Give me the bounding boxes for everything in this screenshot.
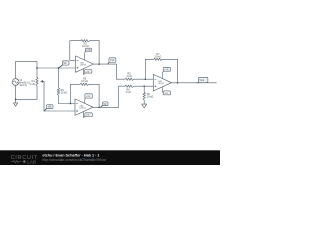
ground (R8) [142,104,147,108]
resistor R2 [70,40,99,49]
svg-text:+VS: +VS [86,50,91,52]
svg-text:VA: VA [63,62,66,65]
svg-text:LAB: LAB [27,160,36,165]
node OA2 -in junction [70,103,72,105]
footer title text [42,154,99,158]
wire source loop left/top [16,61,37,99]
svg-text:V1o: V1o [110,59,115,62]
flag OA1 output [108,58,116,64]
node OA3 out junction [177,82,179,84]
ground (source) [14,99,18,106]
svg-text:LM741: LM741 [80,108,87,110]
node junction at source bottom [15,99,17,101]
svg-text:10 kΩ: 10 kΩ [61,91,68,95]
wire OA3 output [172,82,217,84]
voltage source V1 [12,79,19,86]
resistor R8 [143,86,153,104]
svg-text:-VS: -VS [86,115,90,117]
op-amp OA1 [76,56,94,72]
svg-text:http://circuitlab.com/circuit/: http://circuitlab.com/circuit/29ahd6b799… [42,158,106,162]
wire OA1 output [94,64,117,79]
svg-text:LM741: LM741 [158,83,165,85]
svg-text:10 kΩ: 10 kΩ [147,95,154,99]
flag OA2 +input [44,105,53,111]
svg-text:10 kΩ: 10 kΩ [81,79,88,83]
node A junction [36,67,38,69]
node R7 tap junction [144,78,146,80]
node B junction [58,67,60,69]
footer bar [0,150,220,165]
op-amp OA3 [153,74,171,91]
power flag OA1 V- [84,69,92,75]
node OA2 out junction [98,106,100,108]
svg-text:1 kΩ: 1 kΩ [29,82,34,86]
label R1 value [29,79,35,86]
CircuitLab logo [11,155,38,165]
wire R7 right vertical [177,59,179,83]
svg-text:10 kΩ: 10 kΩ [155,55,162,59]
flag output [197,77,208,83]
power flag OA1 V+ [85,48,92,60]
resistor R3 [70,77,99,86]
wire OA1 +input [37,67,76,69]
wire OA2 output [93,86,119,107]
power flag OA3 V+ [163,67,171,78]
power flag OA2 V- [83,112,92,118]
wire OA1 feedback right [98,41,100,64]
resistor R5 [117,72,154,81]
svg-text:VB: VB [48,106,52,109]
label V1 value [19,79,30,87]
resistor R7 [145,52,177,79]
power flag OA2 V+ [85,94,93,104]
wire OA2 feedback right [98,84,100,107]
wire pot wiper to OA2 +input [44,81,75,111]
svg-text:+VS: +VS [164,69,169,71]
power flag OA3 V- [163,87,171,95]
wire OA2 feedback left [69,84,71,103]
node R8 tap junction [143,85,145,87]
flag OA2 output [101,102,108,107]
svg-text:1k 0 0): 1k 0 0) [19,84,27,87]
footer url text [42,158,106,162]
svg-text:1 kΩ: 1 kΩ [126,74,131,78]
svg-text:Vout: Vout [199,79,204,82]
potentiometer R1 [36,78,44,87]
svg-text:-VS: -VS [164,93,168,95]
resistor R6 [119,85,154,94]
resistor R4 [57,68,67,104]
svg-text:1 kΩ: 1 kΩ [125,90,130,94]
node OA1 out junction [98,63,100,65]
svg-text:LM741: LM741 [80,65,87,67]
svg-text:etchu / Evan Schaffer - Hab 1: etchu / Evan Schaffer - Hab 1 - 1 [42,154,99,158]
wire OA2 -input [59,103,76,105]
op-amp OA2 [75,99,93,116]
svg-text:10 kΩ: 10 kΩ [82,44,89,48]
svg-text:-VS: -VS [86,71,90,73]
flag node B [59,61,70,68]
wire OA1 -input [70,41,76,61]
svg-text:+VS: +VS [86,96,91,98]
